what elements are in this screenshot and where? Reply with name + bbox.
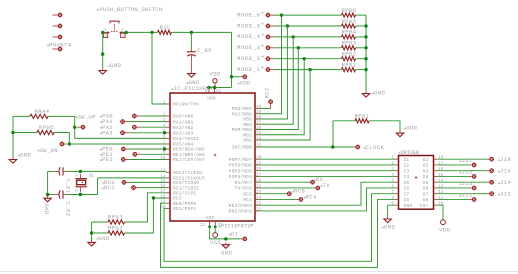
resistor RPB6	[342, 7, 357, 17]
U1 pin 21 RD2/PSP2	[229, 207, 262, 214]
svg-text:GND: GND	[406, 125, 418, 132]
wire RPA1 left	[333, 120, 355, 122]
svg-text:5: 5	[391, 179, 394, 184]
pin J18	[489, 157, 494, 162]
resistor RPB4	[342, 29, 357, 39]
junction rail	[364, 46, 367, 49]
label PE2	[100, 156, 113, 163]
capacitor C_01	[54, 167, 71, 193]
crystal Q1	[75, 174, 94, 193]
wire RPB3 to rail	[356, 47, 367, 49]
svg-text:MOUNT4: MOUNT4	[49, 42, 72, 49]
svg-text:VSS: VSS	[210, 239, 222, 246]
svg-text:RB1: RB1	[243, 138, 252, 144]
U2 pin 7/12 row	[391, 190, 443, 197]
wire MODE_4 to PIC RB4	[259, 37, 293, 124]
svg-text:RC4: RC4	[243, 197, 252, 203]
junction SW_DN	[68, 142, 71, 145]
switch S1 push button	[103, 21, 127, 39]
label J16	[498, 168, 511, 175]
svg-text:RE1/WR#/AN6: RE1/WR#/AN6	[173, 152, 205, 158]
pin RC5	[287, 191, 292, 196]
junction SW_UP	[73, 126, 76, 129]
wire PIC RD to driver	[259, 170, 395, 172]
label MODE_1	[237, 66, 264, 73]
wire PIC RD to driver	[259, 175, 395, 177]
label J13	[459, 180, 472, 187]
svg-text:23: 23	[256, 196, 262, 201]
U1 pin 8 RE0/RD#/AN5	[163, 145, 205, 152]
junction p1 gnd	[224, 237, 227, 240]
wire RPB1 to rail	[356, 69, 367, 71]
label RC1	[102, 184, 115, 191]
wire PIC RD to driver	[259, 158, 395, 160]
resistor RPW5	[37, 124, 54, 134]
wire RRA4 left	[13, 115, 30, 117]
U1 pin 36 PGM/RB3	[232, 126, 262, 133]
pin RC1 circle	[131, 185, 136, 190]
label J15	[459, 169, 472, 176]
pin MODE_1	[266, 67, 271, 72]
wire C_02 left	[48, 194, 54, 196]
mount pin MOUNT1 stub	[53, 14, 58, 16]
wire MODE_2 to PIC RB2	[259, 59, 304, 135]
junction switch right pin	[125, 31, 128, 34]
wire switch to ground	[102, 32, 104, 68]
resistor RRA4	[30, 108, 50, 119]
op IC U1 PIC16F871 body	[170, 93, 255, 221]
svg-text:INT/RB0: INT/RB0	[232, 145, 252, 151]
svg-text:11: 11	[205, 89, 211, 94]
svg-text:I5: I5	[404, 180, 410, 186]
wire RPA3 left	[92, 221, 108, 223]
svg-text:37: 37	[256, 121, 262, 126]
svg-text:MODE_3: MODE_3	[237, 44, 261, 51]
svg-text:RB2: RB2	[243, 132, 252, 138]
svg-text:SW_DN: SW_DN	[40, 147, 59, 154]
pin MODE_3	[266, 45, 271, 50]
junction rail	[364, 57, 367, 60]
svg-text:RD0/PSP0: RD0/PSP0	[173, 201, 196, 207]
svg-text:I2: I2	[404, 163, 410, 169]
wire VDD rail	[206, 87, 232, 89]
VDD supply for driver	[439, 220, 451, 234]
wire PA0 to U1	[140, 115, 166, 117]
U1 pin 13 OSC1/CLKIN	[160, 169, 202, 176]
wire PA2 to U1	[140, 126, 166, 128]
wire U2 to J18	[437, 158, 487, 160]
mount pin MOUNT4 stub	[53, 48, 58, 50]
svg-text:C_BP: C_BP	[197, 47, 212, 54]
wire RPB5 to rail	[356, 25, 367, 27]
junction RPA2	[90, 231, 93, 234]
label PE1	[100, 151, 113, 158]
svg-text:O6: O6	[423, 186, 429, 192]
svg-text:VDD: VDD	[210, 70, 222, 77]
svg-text:39: 39	[256, 110, 262, 115]
svg-text:8: 8	[391, 196, 394, 201]
svg-text:PUSH_BUTTON_SWITCH: PUSH_BUTTON_SWITCH	[100, 6, 163, 13]
svg-text:RC0/T1OSO: RC0/T1OSO	[173, 180, 199, 186]
label DRIVER	[398, 149, 419, 156]
resistor RPA3	[108, 214, 125, 224]
svg-text:J14: J14	[500, 179, 512, 186]
svg-text:38: 38	[256, 115, 262, 120]
U2 origin cross	[415, 176, 418, 179]
wire MODE_3 to PIC RB3	[259, 48, 298, 130]
U1 pin 9 RE1/WR#/AN6	[163, 151, 205, 158]
svg-text:13: 13	[438, 184, 444, 189]
U1 pin 30 PSP7/RD7	[229, 156, 262, 163]
svg-text:RPB2: RPB2	[342, 51, 357, 58]
wire SW_DN to RA5	[69, 143, 166, 145]
svg-text:J11: J11	[462, 192, 474, 199]
svg-text:RA2/AN2: RA2/AN2	[173, 125, 193, 131]
U1 pin 14 OSC2/CLKOUT	[160, 174, 205, 181]
resistor RPB1	[342, 61, 357, 71]
svg-text:MODE_6: MODE_6	[237, 11, 261, 18]
label GND	[96, 235, 110, 242]
svg-text:RPA1: RPA1	[355, 112, 370, 119]
pin TX	[315, 186, 320, 191]
wire PE2 to U1	[129, 159, 166, 161]
svg-text:2: 2	[163, 112, 166, 117]
svg-text:O1: O1	[423, 157, 429, 163]
label J12	[498, 191, 511, 198]
wire RD2 to driver pin 6	[259, 188, 395, 211]
pin p1	[242, 237, 247, 242]
svg-text:PA3: PA3	[102, 129, 113, 136]
pin CLOCK	[355, 145, 360, 150]
wire RPA2 left	[92, 232, 108, 234]
svg-text:RE2/CS#/AN7: RE2/CS#/AN7	[173, 157, 205, 163]
svg-text:4: 4	[163, 124, 166, 129]
label CLOCK	[363, 144, 385, 151]
svg-text:26: 26	[256, 179, 262, 184]
U1 pin 10 RE2/CS#/AN7	[160, 156, 205, 163]
svg-text:GND: GND	[384, 224, 396, 231]
svg-text:CLOCK: CLOCK	[366, 144, 385, 151]
ground below C_BP	[188, 71, 195, 77]
svg-text:RRA4: RRA4	[35, 108, 50, 115]
ground	[99, 68, 106, 74]
resistor R1C	[158, 24, 172, 34]
wire crystal left rail	[47, 171, 49, 194]
svg-text:O4: O4	[423, 174, 429, 180]
svg-text:O3: O3	[423, 168, 429, 174]
svg-text:4: 4	[391, 173, 394, 178]
svg-text:10: 10	[160, 156, 166, 161]
U2 pin 6/13 row	[391, 184, 443, 191]
svg-text:MODE_2: MODE_2	[237, 55, 261, 62]
pin PA2 circle	[132, 125, 137, 130]
svg-text:J12: J12	[500, 191, 511, 198]
wire U2 to J13	[437, 187, 469, 189]
pin PE2	[126, 159, 129, 161]
svg-text:J18: J18	[500, 156, 511, 163]
pin MODE_5	[266, 24, 271, 29]
wire RD0 bus to driver pin 8	[161, 199, 395, 267]
svg-text:O5: O5	[423, 180, 429, 186]
svg-text:32: 32	[216, 89, 222, 94]
wire RB7 to RC2 pin	[259, 108, 271, 110]
svg-text:RPB5: RPB5	[342, 18, 357, 25]
label PA0	[100, 113, 113, 120]
svg-text:RA3/AN3: RA3/AN3	[173, 131, 193, 137]
wire RC1 to U1	[140, 187, 167, 189]
svg-text:GND: GND	[43, 204, 50, 216]
U1 pin 17 RC2/CCP1	[160, 189, 196, 196]
wire MODE_1 to PIC RB1	[259, 70, 310, 140]
svg-text:12: 12	[200, 223, 206, 228]
junction rail	[364, 24, 367, 27]
VSS supply symbol	[210, 227, 222, 246]
svg-text:2: 2	[75, 189, 80, 192]
pin MODE_3 stub	[271, 47, 275, 49]
wire MODE_6 to PIC RB6	[259, 15, 282, 114]
IC U2 DRIVER body	[399, 156, 434, 210]
wire RC7 to RX pin	[259, 181, 309, 183]
svg-text:GND: GND	[99, 235, 111, 242]
pin J15	[472, 174, 477, 179]
svg-text:O2: O2	[423, 163, 429, 169]
wire U2 to J11	[437, 198, 469, 200]
junction	[101, 52, 104, 55]
label GND	[18, 152, 32, 159]
svg-text:PSP4/RD4: PSP4/RD4	[229, 174, 252, 180]
svg-text:MCLR#/THV: MCLR#/THV	[173, 102, 199, 108]
junction MODE_1 drop	[308, 68, 311, 71]
U1 pin 25 TX/RC6	[235, 184, 262, 191]
junction MODE_6 drop	[280, 13, 283, 16]
wire RPA2 to RC3	[125, 198, 167, 233]
U1 pin 37 RB4	[243, 121, 261, 128]
pin J14	[489, 180, 494, 185]
U1 pin 1 MCLR#/THV	[163, 100, 199, 107]
svg-text:TX/RC6: TX/RC6	[235, 186, 253, 192]
U1 pin 23 RC4	[243, 196, 261, 203]
junction MODE_2 drop	[303, 57, 306, 60]
wire MODE_6 to RPB6	[275, 14, 342, 16]
label PUSH_BUTTON_SWITCH	[97, 6, 163, 13]
svg-text:7: 7	[391, 190, 394, 195]
svg-text:24: 24	[256, 190, 262, 195]
svg-text:9: 9	[391, 202, 394, 207]
pin J16	[489, 168, 494, 173]
svg-text:OSC1/CLKIN: OSC1/CLKIN	[173, 170, 202, 176]
svg-text:2: 2	[121, 34, 124, 39]
U1 pin 28 PSP5/RD5	[229, 167, 262, 174]
svg-text:17: 17	[438, 161, 444, 166]
label GND	[186, 79, 200, 86]
svg-text:1: 1	[391, 156, 394, 161]
label p1	[229, 231, 239, 238]
svg-text:PSP7/RD7: PSP7/RD7	[229, 157, 252, 163]
wire RPA1 right to ground	[369, 121, 400, 131]
ground driver	[384, 217, 391, 223]
svg-text:1: 1	[75, 174, 80, 177]
label MODE_5	[237, 22, 264, 29]
wire MODE_2 to RPB2	[275, 58, 342, 60]
label PA1	[100, 118, 113, 125]
wire R1C to VDD branch	[172, 31, 232, 33]
mount pin MOUNT3 stub	[53, 36, 58, 38]
svg-text:O7: O7	[423, 191, 429, 197]
mount pin MOUNT4	[58, 47, 63, 52]
junction crystal gnd	[46, 193, 49, 196]
wire RPA3 to RC2/CCP1	[125, 193, 167, 222]
U1 pin 4 RA2/AN2	[163, 124, 194, 131]
svg-text:GND: GND	[20, 152, 32, 159]
svg-text:TX: TX	[323, 182, 331, 189]
resistor RPB5	[342, 18, 357, 28]
svg-text:GND: GND	[404, 203, 413, 209]
svg-text:RC5: RC5	[243, 191, 252, 197]
junction rail	[364, 35, 367, 38]
wire RC6 to TX pin	[259, 187, 314, 189]
svg-text:1: 1	[163, 100, 166, 105]
svg-text:RC4: RC4	[306, 194, 318, 201]
svg-text:27: 27	[256, 173, 262, 178]
wire RPA1 to clock net	[332, 121, 334, 147]
svg-text:21: 21	[256, 207, 262, 212]
pin PA3	[125, 132, 128, 134]
wire RC0 to U1	[130, 181, 166, 183]
junction C_BP branch	[190, 31, 193, 34]
wire VSS net to p1 pin	[210, 227, 241, 239]
label J17	[459, 157, 472, 164]
label TX	[320, 182, 330, 189]
wire RPW5 left	[13, 132, 37, 134]
wire PIC RD to driver	[259, 164, 395, 166]
wire MODE_3 to RPB3	[275, 47, 342, 49]
pin PA2	[137, 126, 140, 128]
pin PE2 circle	[121, 157, 126, 162]
pin MODE_6 stub	[271, 14, 275, 16]
svg-text:40: 40	[256, 105, 262, 110]
wire PE0 to U1	[129, 148, 166, 150]
pin MODE_6	[266, 13, 271, 18]
pin MODE_1 stub	[271, 69, 275, 71]
label RC4	[303, 194, 317, 201]
svg-text:4: 4	[104, 34, 107, 39]
U1 pin 22 RD3/PSP3	[229, 202, 262, 209]
svg-text:14: 14	[438, 179, 444, 184]
svg-text:31: 31	[218, 223, 224, 228]
svg-text:GND: GND	[110, 62, 122, 69]
svg-text:RC5: RC5	[294, 188, 305, 195]
svg-text:CO+: CO+	[420, 203, 429, 209]
U2 pin 5/14 row	[391, 179, 443, 186]
svg-text:GND: GND	[221, 250, 233, 257]
label RC0	[102, 179, 115, 186]
svg-text:20: 20	[160, 205, 166, 210]
svg-text:2: 2	[391, 161, 394, 166]
wire U2 to J16	[437, 170, 487, 172]
svg-text:6: 6	[163, 135, 166, 140]
wire RC5 to pin	[259, 193, 285, 195]
junction RC3 row	[152, 196, 155, 199]
svg-text:35: 35	[256, 131, 262, 136]
label MODE_3	[237, 44, 264, 51]
pin MODE_2 stub	[271, 58, 275, 60]
junction crystal bottom	[79, 193, 82, 196]
wire RD3 to driver pin 5	[259, 182, 395, 205]
U1 pin 39 PGC/RB6	[232, 110, 262, 117]
svg-text:SW_UP: SW_UP	[78, 113, 97, 120]
wire RPB2 to rail	[356, 58, 367, 60]
svg-text:RPW5: RPW5	[39, 124, 54, 131]
svg-text:C_02: C_02	[64, 202, 71, 217]
pin RC0 circle	[122, 180, 127, 185]
svg-text:PSP5/RD5: PSP5/RD5	[229, 168, 252, 174]
pin J12	[489, 191, 494, 196]
svg-text:3: 3	[391, 167, 394, 172]
svg-text:15: 15	[438, 173, 444, 178]
label GND	[372, 90, 386, 97]
pin PA1 circle	[120, 119, 125, 124]
pin RX	[310, 180, 315, 185]
mount pin MOUNT2 stub	[53, 25, 58, 27]
wire U2 to J15	[437, 175, 469, 177]
mount pin MOUNT2	[58, 24, 63, 29]
junction VDD pin branch	[230, 75, 233, 78]
svg-text:30: 30	[256, 156, 262, 161]
svg-text:RD3/PSP3: RD3/PSP3	[229, 203, 252, 209]
pin MODE_4	[266, 35, 271, 40]
label MOUNT4	[47, 42, 72, 49]
U2 pin 9/10 row	[391, 202, 443, 209]
U1 pin 19 RD0/PSP0	[160, 200, 196, 207]
svg-text:MODE_1: MODE_1	[237, 66, 261, 73]
pin J17	[472, 163, 477, 168]
svg-text:29: 29	[256, 161, 262, 166]
junction MODE_4 drop	[292, 35, 295, 38]
svg-text:12: 12	[438, 190, 444, 195]
svg-text:I7: I7	[404, 191, 410, 197]
svg-text:J15: J15	[462, 169, 473, 176]
resistor RPB2	[342, 51, 357, 61]
U1 origin cross	[214, 154, 217, 157]
wire U2 to J17	[437, 164, 469, 166]
label J18	[498, 156, 511, 163]
svg-text:VSS: VSS	[206, 215, 215, 221]
wire RPB ground rail	[365, 15, 367, 91]
svg-text:16: 16	[438, 167, 444, 172]
label PE0	[100, 146, 113, 153]
U2 pin 3/16 row	[391, 167, 443, 174]
pin J13	[472, 186, 477, 191]
pin end dot VSS1	[208, 225, 211, 228]
svg-text:RC3: RC3	[173, 196, 182, 202]
svg-text:RC2/CCP1: RC2/CCP1	[173, 191, 196, 197]
svg-text:RC1: RC1	[104, 184, 115, 191]
wire RB0 to CLOCK pin	[259, 146, 354, 148]
wire OSC1 left	[48, 170, 54, 172]
pin PA0	[137, 115, 140, 117]
label MODE_2	[237, 55, 264, 62]
svg-text:25: 25	[256, 184, 262, 189]
pin end dot RE0	[163, 147, 166, 150]
pin RC0	[127, 181, 130, 183]
U1 pin 27 PSP4/RD4	[229, 173, 262, 180]
U1 bottom supply pin stubs	[210, 221, 216, 226]
pin MODE_4 stub	[271, 36, 275, 38]
U1 pin 15 RC0/T1OSO	[160, 179, 199, 186]
svg-text:GND: GND	[374, 90, 386, 97]
svg-text:J17: J17	[462, 157, 473, 164]
svg-text:PE2: PE2	[102, 156, 113, 163]
